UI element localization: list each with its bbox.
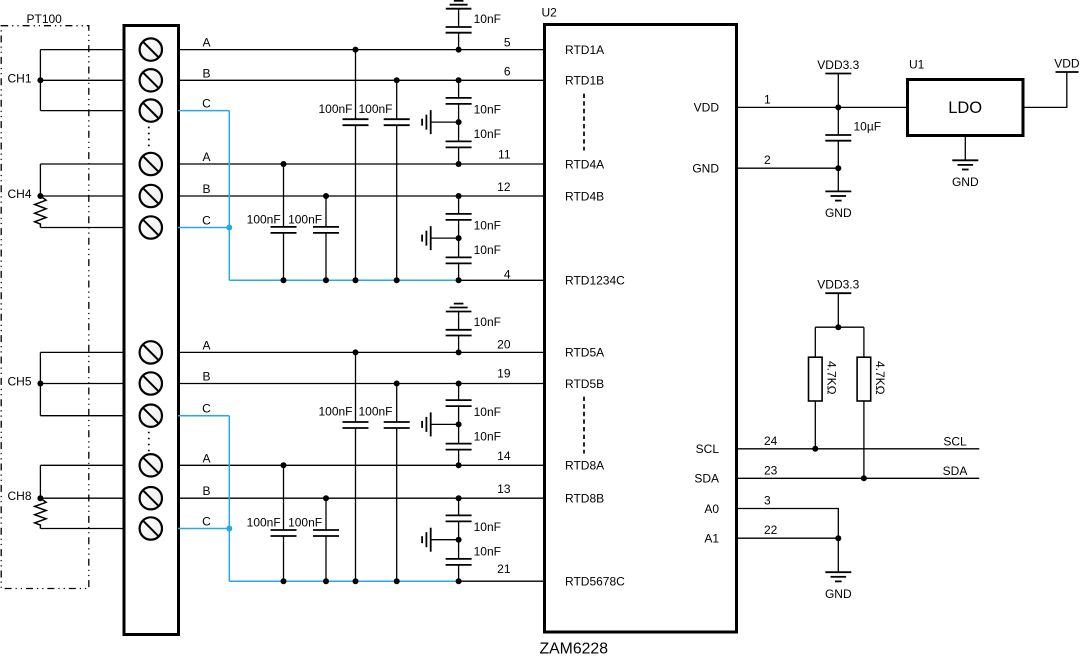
svg-text:VDD: VDD <box>694 101 720 115</box>
U2 internal dots (RTD1B..RTD4A) <box>583 94 585 151</box>
svg-text:10nF: 10nF <box>474 12 501 26</box>
wire RTD4B (terminal to U2) <box>178 195 545 197</box>
svg-text:5: 5 <box>504 35 511 49</box>
wire RTD4A (terminal to U2) <box>178 163 545 165</box>
wire LDO output <box>1023 72 1067 107</box>
svg-text:RTD1A: RTD1A <box>565 43 604 57</box>
svg-text:100nF: 100nF <box>318 102 352 116</box>
terminal screw 4 <box>140 153 162 175</box>
wire RTD1A (terminal to U2) <box>178 49 545 51</box>
wire A0 strap <box>736 509 839 539</box>
node RTD4A to C bus top junction <box>281 161 287 167</box>
svg-text:100nF: 100nF <box>247 213 281 227</box>
resistor element CH4 (zigzag) <box>35 196 46 228</box>
wire C4 (blue) terminal to junction <box>178 227 229 229</box>
terminal screw 2 <box>140 69 162 91</box>
capacitor 100nF (RTD5A to C bus) <box>355 352 357 422</box>
svg-text:ZAM6228: ZAM6228 <box>540 641 609 658</box>
resistor element CH8 (zigzag) <box>35 498 46 528</box>
svg-text:RTD5A: RTD5A <box>565 346 604 360</box>
svg-text:U1: U1 <box>909 58 925 72</box>
wire CH5 lead B <box>40 383 124 385</box>
svg-text:C: C <box>202 214 211 228</box>
svg-text:19: 19 <box>497 366 511 380</box>
svg-text:CH8: CH8 <box>8 489 32 503</box>
wire C group2 (blue) vertical <box>228 416 230 582</box>
node RTD8B to C bus bottom junction <box>323 578 329 584</box>
node A0/A1 junction <box>835 535 841 541</box>
terminal screw 5 <box>140 185 162 207</box>
node RTD5B/RTD8A filter top junction <box>456 381 462 387</box>
power VDD rail (output) <box>1056 71 1079 73</box>
svg-text:SCL: SCL <box>943 435 967 449</box>
wire CH1 lead A <box>40 49 124 51</box>
node RTD4B/C filter midpoint junction <box>456 235 462 241</box>
node CH4 junction <box>37 193 43 199</box>
wire CH8 lead C <box>40 528 124 530</box>
wire SDA <box>736 477 980 479</box>
svg-text:10nF: 10nF <box>474 243 501 257</box>
svg-text:U2: U2 <box>542 6 558 20</box>
terminal block continuation dots (bottom group) <box>148 432 150 452</box>
wire to ground (RTD1B/RTD4A filter) <box>431 121 459 123</box>
wire VDD3.3 stem <box>837 74 839 108</box>
ground (sideways) at RTD1B/RTD4A filter <box>430 110 432 134</box>
svg-text:23: 23 <box>764 463 778 477</box>
svg-text:GND: GND <box>952 175 979 189</box>
svg-text:C: C <box>202 515 211 529</box>
svg-text:10nF: 10nF <box>474 429 501 443</box>
svg-text:A: A <box>202 150 210 164</box>
svg-text:10nF: 10nF <box>474 405 501 419</box>
op IC U2 body <box>545 25 737 633</box>
svg-text:B: B <box>202 182 210 196</box>
svg-text:10nF: 10nF <box>474 520 501 534</box>
ground (sideways) at RTD5B/RTD8A filter <box>430 412 432 436</box>
terminal screw 1 <box>140 38 162 60</box>
node RTD4B/C filter top junction <box>456 193 462 199</box>
svg-text:10nF: 10nF <box>474 103 501 117</box>
terminal block J1 body <box>124 26 179 635</box>
wire CH5 lead A <box>40 351 124 353</box>
wire CH8 lead B <box>40 497 124 499</box>
svg-text:RTD1234C: RTD1234C <box>565 274 625 288</box>
terminal screw 9 <box>140 405 162 427</box>
node GND junction <box>835 165 841 171</box>
svg-text:13: 13 <box>497 482 511 496</box>
svg-text:B: B <box>202 66 210 80</box>
node RTD8A to C bus bottom junction <box>281 578 287 584</box>
svg-text:10µF: 10µF <box>854 120 882 134</box>
svg-text:RTD5B: RTD5B <box>565 377 604 391</box>
svg-text:A0: A0 <box>704 502 719 516</box>
wire U2 GND pin2 <box>736 167 839 169</box>
wire RTD5B (terminal to U2) <box>178 383 545 385</box>
node VDD junction <box>835 104 841 110</box>
svg-text:GND: GND <box>692 162 719 176</box>
capacitor 100nF (RTD8A to C bus) <box>283 465 285 530</box>
wire RTD1234C bus (blue part) <box>229 279 458 281</box>
node CH5 junction <box>37 381 43 387</box>
wire LDO ground stem <box>964 137 966 161</box>
wire RTD1234C bus (black part to U2) <box>459 279 545 281</box>
svg-text:2: 2 <box>764 153 771 167</box>
svg-text:CH4: CH4 <box>8 187 32 201</box>
wire CH1 vertical tie <box>39 50 41 111</box>
svg-text:VDD: VDD <box>1054 57 1080 71</box>
node RTD5B to C bus bottom junction <box>394 578 400 584</box>
svg-text:100nF: 100nF <box>288 213 322 227</box>
svg-text:4.7KΩ: 4.7KΩ <box>824 361 838 395</box>
wire CH4 vertical tie <box>39 164 41 196</box>
wire U2 VDD pin1 to LDO <box>736 106 907 108</box>
node RTD1A to C bus bottom junction <box>353 277 359 283</box>
wire CH4 lead A <box>40 163 124 165</box>
wire CH1 lead C <box>40 110 124 112</box>
terminal screw 6 <box>140 216 162 238</box>
node pullup rail junction <box>835 324 841 330</box>
svg-text:6: 6 <box>504 65 511 79</box>
capacitor 10nF upper (RTD1B/RTD4A filter) <box>458 80 460 98</box>
svg-text:RTD1B: RTD1B <box>565 74 604 88</box>
svg-text:A: A <box>202 36 210 50</box>
svg-text:PT100: PT100 <box>27 12 63 26</box>
node SCL junction <box>812 446 818 452</box>
wire C1 (blue) terminal to corner <box>178 110 229 112</box>
ground under LDO <box>952 159 978 161</box>
node RTD5A filter junction <box>456 349 462 355</box>
capacitor 100nF (RTD5B to C bus) <box>396 384 398 423</box>
capacitor 100nF (RTD1A to C bus) <box>355 50 357 120</box>
svg-text:RTD8A: RTD8A <box>565 459 604 473</box>
svg-text:A1: A1 <box>704 532 719 546</box>
svg-text:11: 11 <box>498 148 511 162</box>
capacitor 100nF (RTD4A to C bus) <box>283 164 285 227</box>
ground (inverted) above RTD5A filter <box>454 303 464 305</box>
node RTD8B/C filter bottom junction <box>456 578 462 584</box>
wire RTD5678C bus (blue part) <box>229 580 458 582</box>
svg-text:RTD4B: RTD4B <box>565 189 604 203</box>
terminal screw 11 <box>140 487 162 509</box>
wire to ground (RTD8B/C filter) <box>431 539 459 541</box>
wire pullup rail <box>815 326 864 328</box>
wire RTD8A (terminal to U2) <box>178 464 545 466</box>
ground under 10uF <box>825 190 851 192</box>
svg-text:SCL: SCL <box>696 442 720 456</box>
resistor R1 4.7Kohm (SCL pullup) <box>814 327 816 357</box>
svg-text:C: C <box>202 97 211 111</box>
node CH1 junction <box>37 77 43 83</box>
svg-text:SDA: SDA <box>694 472 719 486</box>
node RTD8A to C bus top junction <box>281 462 287 468</box>
svg-text:RTD5678C: RTD5678C <box>565 575 625 589</box>
svg-text:A: A <box>202 338 210 352</box>
ground for A0/A1 <box>825 571 851 573</box>
capacitor 10nF upper (RTD8B/C filter) <box>458 498 460 515</box>
svg-text:LDO: LDO <box>948 99 982 117</box>
wire to ground (RTD4B/C filter) <box>431 237 459 239</box>
node SDA junction <box>861 475 867 481</box>
svg-text:12: 12 <box>497 180 511 194</box>
capacitor 10nF upper (RTD5B/RTD8A filter) <box>458 384 460 401</box>
terminal screw 12 <box>140 517 162 539</box>
node RTD1B/RTD4A filter midpoint junction <box>456 119 462 125</box>
wire CH5 vertical tie <box>39 352 41 415</box>
node RTD5B/RTD8A filter bottom junction <box>456 462 462 468</box>
terminal screw 7 <box>140 341 162 363</box>
node C8 junction (blue) <box>226 526 232 532</box>
node RTD8B/C filter midpoint junction <box>456 537 462 543</box>
node C4 junction (blue) <box>226 225 232 231</box>
node RTD8B to C bus top junction <box>323 495 329 501</box>
capacitor 10nF lower (RTD4B/C filter) <box>458 238 460 257</box>
capacitor 10nF (RTD5A filter) <box>458 312 460 330</box>
terminal screw 8 <box>140 372 162 394</box>
wire C8 (blue) terminal to junction <box>178 528 229 530</box>
terminal screw 3 <box>140 99 162 121</box>
wire RTD8B (terminal to U2) <box>178 497 545 499</box>
capacitor 100nF (RTD8B to C bus) <box>325 498 327 530</box>
node RTD4A to C bus bottom junction <box>281 277 287 283</box>
ground (inverted) above RTD1A filter <box>454 0 464 2</box>
svg-text:GND: GND <box>825 206 852 220</box>
svg-text:B: B <box>202 484 210 498</box>
wire SCL <box>736 448 980 450</box>
power VDD3.3 rail (pullups) <box>825 292 851 294</box>
resistor R2 4.7Kohm (SDA pullup) <box>863 327 865 357</box>
node RTD1B to C bus bottom junction <box>394 277 400 283</box>
svg-text:C: C <box>202 402 211 416</box>
svg-text:10nF: 10nF <box>474 127 501 141</box>
node CH8 junction <box>37 495 43 501</box>
wire CH1 lead B <box>40 79 124 81</box>
wire VDD3.3 stem to pullups <box>837 293 839 327</box>
capacitor 10nF lower (RTD1B/RTD4A filter) <box>458 122 460 141</box>
svg-text:GND: GND <box>825 587 852 601</box>
svg-text:B: B <box>202 370 210 384</box>
svg-text:VDD3.3: VDD3.3 <box>817 278 859 292</box>
ground (sideways) at RTD4B/C filter <box>430 226 432 250</box>
svg-text:20: 20 <box>497 337 511 351</box>
node RTD5A to C bus bottom junction <box>353 578 359 584</box>
capacitor 10nF lower (RTD8B/C filter) <box>458 540 460 559</box>
power VDD3.3 rail (top) <box>825 73 851 75</box>
wire RTD1B (terminal to U2) <box>178 79 545 81</box>
node RTD1B/RTD4A filter top junction <box>456 77 462 83</box>
capacitor C-bulk 10uF <box>837 107 839 135</box>
svg-text:VDD3.3: VDD3.3 <box>817 58 859 72</box>
svg-text:4.7KΩ: 4.7KΩ <box>873 361 887 395</box>
svg-text:A: A <box>202 451 210 465</box>
PT100 sensor group boundary (dash-dot box) <box>1 26 89 589</box>
terminal block continuation dots (top group) <box>148 127 150 150</box>
wire CH8 vertical tie <box>39 465 41 498</box>
capacitor 10nF lower (RTD5B/RTD8A filter) <box>458 424 460 443</box>
node RTD1A to C bus top junction <box>353 47 359 53</box>
wire C group1 (blue) vertical <box>228 111 230 281</box>
wire A1 strap <box>736 537 839 539</box>
wire A-strap ground stem <box>837 538 839 572</box>
wire C5 (blue) terminal to corner <box>178 415 229 417</box>
svg-text:10nF: 10nF <box>474 315 501 329</box>
capacitor 10nF upper (RTD4B/C filter) <box>458 196 460 214</box>
svg-text:100nF: 100nF <box>318 405 352 419</box>
svg-text:10nF: 10nF <box>474 219 501 233</box>
wire CH8 lead A <box>40 464 124 466</box>
svg-text:RTD4A: RTD4A <box>565 157 604 171</box>
node RTD4B to C bus bottom junction <box>323 277 329 283</box>
capacitor 10nF (RTD1A filter) <box>458 9 460 27</box>
capacitor 100nF (RTD4B to C bus) <box>325 196 327 227</box>
svg-text:100nF: 100nF <box>288 516 322 530</box>
svg-text:22: 22 <box>764 523 778 537</box>
node RTD1B/RTD4A filter bottom junction <box>456 161 462 167</box>
capacitor 100nF (RTD1B to C bus) <box>396 80 398 119</box>
node RTD5B/RTD8A filter midpoint junction <box>456 421 462 427</box>
svg-text:CH5: CH5 <box>8 375 32 389</box>
svg-text:3: 3 <box>764 494 771 508</box>
node RTD4B/C filter bottom junction <box>456 277 462 283</box>
svg-text:SDA: SDA <box>943 464 968 478</box>
U2 internal dots (RTD5B..RTD8A) <box>583 397 585 454</box>
svg-text:RTD8B: RTD8B <box>565 492 604 506</box>
regulator U1 body (LDO) <box>908 80 1024 136</box>
terminal screw 10 <box>140 454 162 476</box>
node RTD1A filter junction <box>456 47 462 53</box>
svg-text:24: 24 <box>764 434 778 448</box>
svg-text:10nF: 10nF <box>474 545 501 559</box>
svg-text:CH1: CH1 <box>8 71 32 85</box>
svg-text:14: 14 <box>497 449 511 463</box>
wire RTD5A (terminal to U2) <box>178 351 545 353</box>
ground (sideways) at RTD8B/C filter <box>430 528 432 552</box>
wire CH4 lead C <box>40 227 124 229</box>
svg-text:1: 1 <box>764 92 771 106</box>
svg-text:4: 4 <box>504 267 511 281</box>
wire to ground (RTD5B/RTD8A filter) <box>431 423 459 425</box>
wire GND stem <box>837 168 839 191</box>
svg-text:100nF: 100nF <box>247 516 281 530</box>
wire CH5 lead C <box>40 415 124 417</box>
node RTD5B to C bus top junction <box>394 381 400 387</box>
node RTD5A to C bus top junction <box>353 349 359 355</box>
wire CH4 lead B <box>40 195 124 197</box>
node RTD1B to C bus top junction <box>394 77 400 83</box>
svg-text:21: 21 <box>497 562 511 576</box>
svg-text:100nF: 100nF <box>358 405 392 419</box>
wire RTD5678C bus (black part to U2) <box>459 580 545 582</box>
node RTD8B/C filter top junction <box>456 495 462 501</box>
node RTD4B to C bus top junction <box>323 193 329 199</box>
svg-text:100nF: 100nF <box>358 102 392 116</box>
